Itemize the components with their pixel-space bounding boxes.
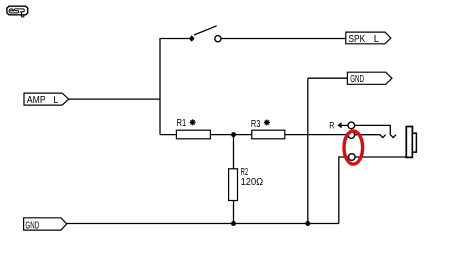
net flag GND bottom <box>24 218 67 232</box>
wire GND right horizontal <box>308 77 348 79</box>
wire R2 to ground rail <box>233 201 235 224</box>
wire arrow to jack R pin <box>342 124 348 126</box>
svg-text:R: R <box>329 120 334 131</box>
wire R3 to jack tip contact <box>285 134 348 136</box>
junction node R1/R2/R3 <box>231 132 236 137</box>
switch lever <box>194 26 217 35</box>
svg-text:L: L <box>374 33 380 45</box>
junction node R2/rail <box>231 221 236 226</box>
asterisk for R3 <box>264 120 270 126</box>
switch throw contact <box>215 36 221 42</box>
wire AMP_L to vertical <box>69 98 160 100</box>
resistor R3 <box>252 130 285 139</box>
wire sleeve to ground rail <box>339 157 349 224</box>
jack body <box>406 127 412 158</box>
wire vertical corner to R1 <box>160 134 176 136</box>
wire GND right vertical <box>307 78 309 223</box>
ESP logo <box>7 6 28 17</box>
wire ground rail <box>67 223 339 225</box>
red highlight ellipse <box>344 131 363 164</box>
svg-text:GND: GND <box>25 220 39 232</box>
net flag SPK_L <box>346 32 391 45</box>
svg-text:SPK: SPK <box>348 33 365 45</box>
resistor R2 <box>229 169 238 201</box>
switch pole contact <box>189 35 195 42</box>
junction node GND rail <box>305 221 310 226</box>
svg-text:GND: GND <box>350 73 364 85</box>
arrow R channel <box>337 122 341 128</box>
jack L contact wire with spring <box>355 135 386 138</box>
jack pin L (tip) <box>348 132 355 139</box>
svg-text:R1: R1 <box>177 117 187 129</box>
jack pin R (ring) <box>348 122 355 129</box>
svg-text:120Ω: 120Ω <box>241 176 264 188</box>
wire top to switch <box>159 38 189 40</box>
wire sleeve to jack body <box>355 156 406 158</box>
asterisk for R1 <box>190 119 196 125</box>
svg-text:R3: R3 <box>251 118 261 130</box>
jack tip block <box>412 133 416 152</box>
wire switch to SPK_L <box>221 38 346 40</box>
wire vertical left branch <box>159 39 161 135</box>
wire junction down to R2 <box>233 135 235 169</box>
svg-text:AMP: AMP <box>27 94 46 106</box>
jack pin sleeve <box>349 154 356 161</box>
net flag GND right <box>347 72 392 85</box>
net flag AMP_L <box>24 93 69 106</box>
resistor R1 <box>176 130 210 139</box>
svg-text:L: L <box>53 94 58 106</box>
wire R1 to junction <box>210 134 251 136</box>
jack R contact wire with spring <box>355 125 396 137</box>
